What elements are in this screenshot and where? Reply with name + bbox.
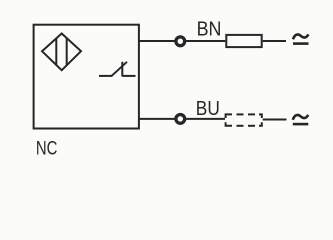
optional load top dash 1 xyxy=(237,113,244,115)
wire: optional load to AC supply xyxy=(263,119,287,121)
NC contact: right lead xyxy=(122,75,135,77)
svg-text:BU: BU xyxy=(196,98,220,120)
optional load top dash 2 xyxy=(248,113,255,115)
AC supply symbol BU (tilde) xyxy=(293,115,308,120)
NC contact: stationary bar xyxy=(121,62,123,77)
AC supply symbol BN (tilde) xyxy=(293,34,308,39)
terminal BN (circle) xyxy=(176,37,185,46)
diamond inner vertical line (right) xyxy=(66,38,68,66)
NC contact: movable contact (diagonal) xyxy=(111,62,127,76)
AC supply symbol BN (bar) xyxy=(293,42,309,45)
sensor box xyxy=(34,25,139,129)
NC contact: left lead xyxy=(99,75,112,77)
svg-text:NC: NC xyxy=(36,139,58,160)
optional load bottom dash 2 xyxy=(248,125,255,127)
optional load (dashed box) top-left corner xyxy=(226,114,232,118)
optional load bottom-left corner xyxy=(226,122,232,126)
load resistor (solid box) xyxy=(226,35,261,47)
optional load bottom-right corner xyxy=(259,122,262,126)
AC supply symbol BU (bar) xyxy=(293,123,309,126)
terminal BU (circle) xyxy=(176,115,185,124)
svg-text:BN: BN xyxy=(197,19,222,41)
proximity sensor symbol (diamond) xyxy=(42,34,81,71)
wire: box to BU terminal xyxy=(139,118,175,120)
optional load bottom dash 1 xyxy=(237,125,244,127)
optional load top-right corner xyxy=(259,114,262,118)
wire: BN terminal to load resistor xyxy=(186,40,226,42)
diamond inner vertical line (left) xyxy=(55,38,57,65)
wire: BU terminal to optional load xyxy=(186,118,225,120)
wire: box to BN terminal xyxy=(139,40,175,42)
wire: load resistor to AC supply xyxy=(263,40,286,42)
